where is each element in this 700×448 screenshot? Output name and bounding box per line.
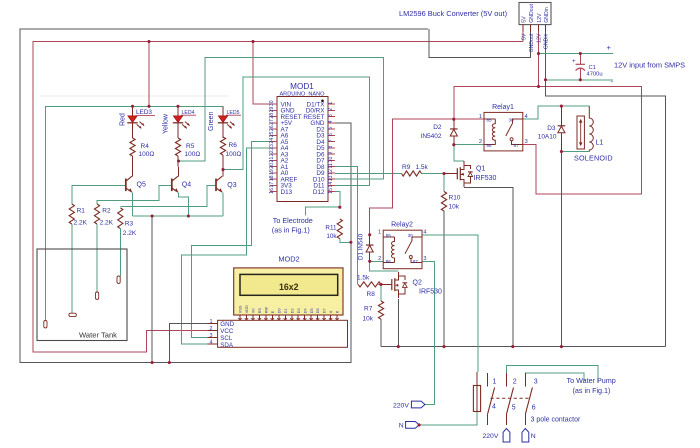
svg-text:30: 30 — [408, 233, 414, 238]
resistor R5 — [175, 138, 180, 177]
svg-text:Q3: Q3 — [227, 182, 236, 189]
wire 12V feed to D2 node — [454, 87, 539, 120]
svg-text:N: N — [399, 423, 404, 430]
label ARDUINO_NANO — [279, 91, 325, 97]
wire Q5 base to R1 — [72, 186, 126, 205]
diode D3 — [558, 106, 566, 151]
svg-text:R10: R10 — [449, 195, 461, 202]
svg-text:2: 2 — [378, 256, 381, 262]
svg-text:D5: D5 — [310, 308, 314, 313]
svg-text:D2: D2 — [433, 124, 442, 131]
svg-text:D1: D1 — [284, 308, 288, 313]
label LED4 — [181, 110, 196, 116]
wire relay2 pin2 to Q2 drain — [370, 261, 399, 271]
label Q5 — [137, 181, 146, 188]
svg-text:4700u: 4700u — [587, 72, 603, 78]
fuse — [473, 372, 480, 412]
MOD1 pin numbers — [269, 100, 334, 194]
svg-text:25: 25 — [269, 132, 275, 138]
svg-text:1: 1 — [328, 102, 334, 105]
wire VIN feed from +5V rail — [253, 42, 270, 105]
wire node to electrode probe (open end) — [306, 207, 340, 215]
electrode E3 probe tip — [96, 292, 99, 299]
svg-text:10k: 10k — [326, 233, 337, 240]
svg-text:100Ω: 100Ω — [185, 151, 201, 158]
Relay1 terminal names — [487, 117, 520, 147]
wire emitter bus to ground — [151, 216, 153, 363]
svg-text:IRF530: IRF530 — [419, 289, 442, 296]
svg-text:15: 15 — [328, 188, 334, 194]
svg-text:3: 3 — [534, 379, 538, 386]
svg-text:4: 4 — [210, 340, 213, 346]
svg-text:L1: L1 — [596, 140, 604, 147]
LED3 (red) — [127, 106, 144, 138]
svg-text:14: 14 — [328, 182, 334, 188]
svg-text:GNDin: GNDin — [544, 33, 550, 49]
svg-text:VSS: VSS — [239, 305, 243, 313]
svg-text:R6: R6 — [229, 142, 238, 149]
svg-text:2.2K: 2.2K — [123, 230, 137, 237]
svg-text:2: 2 — [513, 379, 517, 386]
svg-text:3: 3 — [210, 333, 213, 339]
transistor Q2 IRF530 — [379, 272, 408, 298]
wire R10 top node — [443, 174, 445, 192]
svg-text:IRF530: IRF530 — [474, 175, 497, 182]
svg-text:220V: 220V — [483, 433, 499, 440]
svg-text:18: 18 — [269, 175, 275, 181]
svg-text:5V: 5V — [522, 16, 528, 23]
svg-text:D3: D3 — [547, 125, 556, 132]
svg-text:87: 87 — [514, 143, 520, 148]
wire Q2 source to ground bus — [397, 299, 399, 347]
label To Water Pump — [567, 376, 616, 395]
3 pole contactor switch — [488, 373, 533, 425]
svg-text:10: 10 — [328, 157, 334, 163]
wire ground bus frame (GND net, top/left/bottom) — [20, 29, 428, 363]
label R10 10k — [449, 195, 461, 211]
svg-text:K: K — [336, 310, 340, 313]
resistor R4 — [130, 138, 135, 177]
label R3 2.2K — [123, 221, 137, 237]
svg-text:GNDout: GNDout — [529, 4, 535, 23]
svg-text:SDA: SDA — [220, 342, 234, 349]
wire Q4 collector to Arduino D10 — [179, 58, 384, 180]
svg-text:30: 30 — [269, 100, 275, 106]
electrode E1 probe tip — [44, 321, 47, 328]
wire Arduino D12 to R11 node — [335, 192, 340, 208]
diode D1 — [366, 235, 374, 261]
resistor R3 — [118, 208, 123, 229]
wire ground bus right section — [381, 346, 666, 348]
label R6 100ohm — [226, 142, 242, 158]
svg-text:10k: 10k — [363, 316, 374, 323]
transistor Q3 — [216, 176, 222, 192]
label Q1 IRF530 — [474, 166, 497, 183]
relay Relay2 — [383, 230, 422, 269]
svg-text:2: 2 — [479, 139, 482, 145]
Relay2 terminal names — [386, 233, 419, 264]
svg-text:16: 16 — [269, 188, 275, 194]
wire Q5 emitter drop — [132, 193, 134, 217]
svg-text:MOD2: MOD2 — [278, 255, 299, 264]
svg-text:R4: R4 — [141, 143, 150, 150]
svg-text:Yellow: Yellow — [163, 113, 170, 134]
svg-text:100Ω: 100Ω — [139, 151, 155, 158]
svg-text:19: 19 — [269, 169, 275, 175]
svg-text:Q2: Q2 — [413, 280, 422, 287]
label SOLENOID — [574, 154, 613, 163]
diode D2 — [450, 119, 458, 145]
label Relay1 — [492, 104, 514, 111]
svg-text:RW: RW — [264, 307, 268, 314]
svg-text:Relay1: Relay1 — [492, 104, 514, 111]
svg-text:3: 3 — [423, 256, 426, 262]
svg-text:5V: 5V — [521, 33, 527, 40]
svg-text:8: 8 — [328, 145, 334, 148]
label R9 1.5k — [402, 164, 429, 171]
Relay2 pin numbers — [378, 230, 426, 262]
svg-text:4: 4 — [492, 404, 496, 411]
svg-text:2.2K: 2.2K — [74, 220, 88, 227]
svg-text:12V: 12V — [537, 13, 543, 23]
wire contactor pole2 to water pump — [507, 366, 598, 384]
label R1 2.2K — [74, 208, 88, 227]
label Q3 — [227, 182, 236, 189]
svg-text:Red: Red — [120, 113, 127, 126]
svg-text:86: 86 — [487, 143, 493, 148]
wire emitter bus (Q5/Q4/Q3 emitters) — [133, 215, 224, 217]
svg-text:6: 6 — [532, 405, 536, 412]
Relay1 pin numbers — [479, 114, 528, 145]
resistor R8 — [358, 282, 381, 287]
svg-text:Green: Green — [208, 111, 215, 131]
svg-text:10k: 10k — [449, 204, 460, 211]
wire Q4 emitter drop with jog — [179, 193, 189, 217]
svg-text:5: 5 — [512, 405, 516, 412]
wire Q4 base to R2 — [97, 186, 171, 205]
wire solenoid bottom to D3 — [561, 151, 589, 153]
svg-text:RS: RS — [258, 307, 262, 313]
wire Arduino A5 to SCL — [192, 142, 271, 338]
label Yellow — [163, 113, 170, 134]
wire R10 bottom to ground bus — [443, 211, 445, 347]
svg-text:Q4: Q4 — [182, 181, 191, 188]
water tank — [37, 249, 127, 341]
svg-text:22: 22 — [269, 150, 275, 156]
resistor R11 — [337, 219, 342, 239]
wire contactor pole3 to water pump — [525, 373, 584, 381]
svg-text:N: N — [531, 433, 536, 440]
svg-text:1.5k: 1.5k — [357, 274, 370, 281]
svg-text:4: 4 — [525, 114, 528, 120]
wire R11 bottom to ground line — [340, 239, 351, 243]
svg-text:5: 5 — [328, 127, 334, 130]
resistor R1 — [69, 204, 74, 224]
220V output flag — [483, 429, 510, 443]
svg-text:17: 17 — [269, 182, 275, 188]
220V input flag — [393, 401, 425, 409]
transistor Q1 IRF530 — [444, 161, 473, 187]
svg-text:2.2K: 2.2K — [100, 220, 114, 227]
svg-text:26: 26 — [269, 125, 275, 131]
wire R7 gate node — [380, 284, 382, 301]
wire 12V to relay1 pin3 — [523, 87, 642, 195]
label MOD1 — [290, 82, 314, 91]
I2C backpack pins GND VCC SCL SDA — [208, 319, 235, 349]
svg-text:3: 3 — [525, 139, 528, 145]
svg-text:12V input from SMPS: 12V input from SMPS — [614, 61, 685, 70]
label 12V input from SMPS — [614, 61, 685, 70]
svg-text:1: 1 — [493, 379, 497, 386]
svg-text:2: 2 — [328, 108, 334, 111]
label LED5 — [226, 110, 241, 116]
svg-text:To Electrode: To Electrode — [273, 216, 313, 225]
svg-text:3: 3 — [328, 114, 334, 117]
svg-text:R7: R7 — [364, 306, 373, 313]
wire LCD backpack GND to ground bus — [169, 324, 207, 363]
svg-text:11: 11 — [328, 163, 334, 168]
svg-text:10A10: 10A10 — [538, 134, 557, 141]
resistor R9 — [402, 171, 422, 176]
svg-text:A: A — [329, 310, 333, 313]
LCD pin stubs with no-connect marks — [238, 305, 339, 322]
wire 12V net: relay1 coil+ / D2 / relay2 coil+ — [370, 119, 484, 235]
transistor Q4 — [172, 176, 178, 192]
N output flag — [522, 429, 536, 443]
svg-text:To Water Pump: To Water Pump — [567, 376, 616, 385]
svg-text:21: 21 — [269, 157, 275, 163]
label C1 4700u — [587, 65, 603, 78]
svg-text:12: 12 — [328, 169, 334, 175]
svg-text:1: 1 — [378, 230, 381, 236]
wire relay1 pin2 to Q1 drain — [454, 144, 484, 146]
svg-text:23: 23 — [269, 144, 275, 150]
LCD display MOD2 16x2 — [234, 268, 343, 315]
label R2 2.2K — [100, 208, 114, 227]
wire SMPS + terminal — [539, 53, 614, 55]
label Red — [120, 113, 127, 126]
N input flag — [399, 422, 419, 430]
svg-text:GNDout: GNDout — [529, 33, 535, 52]
MOD1 pin stubs — [270, 104, 335, 192]
contactor pole numbers — [492, 379, 538, 412]
svg-text:ARDUINO_NANO: ARDUINO_NANO — [279, 91, 325, 97]
wire Arduino D8 down to R8 — [335, 167, 357, 285]
svg-text:D12: D12 — [313, 189, 325, 196]
wire relay1 pin4 to solenoid — [523, 106, 590, 119]
resistor R10 — [441, 192, 446, 212]
label L1 — [596, 140, 604, 147]
wire buck 5V output to +5V rail — [522, 31, 524, 41]
wire +5V net frame (top rail, left side, LCD VCC feed) — [33, 42, 523, 353]
svg-text:R2: R2 — [102, 208, 111, 215]
label + terminal — [607, 43, 612, 52]
svg-text:+: + — [607, 43, 612, 52]
solenoid L1 — [577, 106, 593, 151]
label Q4 — [182, 181, 191, 188]
svg-text:(as in Fig.1): (as in Fig.1) — [573, 386, 611, 395]
wire SMPS - terminal — [546, 79, 614, 81]
svg-text:LED3: LED3 — [136, 109, 152, 116]
svg-text:1: 1 — [210, 319, 213, 325]
resistor R7 — [378, 301, 383, 319]
relay Relay1 — [484, 112, 523, 150]
svg-text:D2: D2 — [290, 308, 294, 313]
svg-text:R5: R5 — [186, 143, 195, 150]
svg-text:Q5: Q5 — [137, 181, 146, 188]
transistor Q5 — [126, 176, 132, 192]
svg-text:C1: C1 — [589, 65, 596, 71]
faint guide line — [39, 95, 229, 97]
wire Q3 collector to Arduino D11 — [223, 77, 369, 185]
svg-text:1.5k: 1.5k — [416, 164, 429, 171]
svg-text:GND: GND — [220, 321, 234, 328]
svg-text:D0: D0 — [277, 308, 281, 313]
buck converter pins 5V GNDout 12V GNDin — [521, 4, 550, 53]
wire R9 to Q1 gate node — [422, 173, 445, 175]
svg-text:R1: R1 — [77, 208, 86, 215]
wire R7 bottom to ground bus — [380, 319, 382, 346]
svg-text:Relay2: Relay2 — [391, 222, 413, 229]
svg-text:20: 20 — [269, 163, 275, 169]
svg-text:LM2596 Buck Converter (5V out): LM2596 Buck Converter (5V out) — [399, 9, 507, 18]
svg-text:100Ω: 100Ω — [226, 151, 242, 158]
svg-text:4: 4 — [423, 230, 426, 236]
svg-text:6: 6 — [328, 133, 334, 136]
svg-text:D6: D6 — [316, 308, 320, 313]
wire Q3 base to R3 — [120, 186, 215, 207]
svg-text:85: 85 — [487, 117, 493, 122]
LED5 (green) — [218, 106, 235, 138]
label LED3 — [136, 109, 156, 116]
svg-text:12V: 12V — [537, 33, 543, 43]
svg-text:30: 30 — [509, 117, 515, 122]
svg-text:D4: D4 — [303, 308, 307, 313]
svg-text:GNDin: GNDin — [544, 7, 550, 23]
wire LED supply rail (+5V to LED anodes and electrode E1) — [45, 106, 223, 321]
wire buck GNDin to ground bus — [546, 31, 666, 346]
svg-text:3 pole contactor: 3 pole contactor — [531, 417, 581, 424]
label LM2596 Buck Converter (5V out) — [399, 9, 507, 18]
svg-text:R8: R8 — [367, 291, 376, 298]
LED4 (yellow) — [173, 106, 190, 138]
svg-text:D1 IN540: D1 IN540 — [358, 233, 365, 260]
label MOD2 — [278, 255, 299, 264]
svg-text:220V: 220V — [393, 402, 409, 409]
electrode E2 probe tip — [69, 313, 76, 316]
svg-text:IN5402: IN5402 — [421, 133, 442, 140]
label Relay2 — [391, 222, 413, 229]
label R8 1.5k — [357, 274, 375, 298]
svg-text:9: 9 — [328, 152, 334, 155]
wire fuse to N flag — [419, 412, 477, 425]
svg-text:85: 85 — [386, 233, 392, 238]
svg-text:R9: R9 — [402, 164, 411, 171]
label - terminal — [611, 77, 614, 86]
svg-text:(as in Fig.1): (as in Fig.1) — [272, 225, 310, 234]
svg-text:+: + — [572, 59, 576, 65]
wire +5V drop to LED rail — [148, 42, 150, 107]
svg-text:Q1: Q1 — [476, 166, 485, 173]
svg-text:D7: D7 — [323, 308, 327, 313]
electrode E4 probe tip — [117, 276, 120, 283]
svg-text:1: 1 — [479, 114, 482, 120]
LM2596 buck converter module box — [519, 3, 551, 25]
svg-text:R3: R3 — [125, 221, 134, 228]
wire relay2 pin4 to fuse — [421, 235, 478, 372]
wire buck GNDout to ground frame — [429, 29, 530, 58]
svg-text:7: 7 — [328, 139, 334, 142]
I2C backpack module box — [218, 320, 348, 347]
svg-text:Water Tank: Water Tank — [79, 331, 117, 340]
svg-text:27: 27 — [269, 119, 275, 125]
svg-text:VDD: VDD — [245, 305, 249, 313]
svg-text:4: 4 — [328, 120, 334, 123]
IC MOD1 Arduino Nano box — [277, 97, 328, 202]
svg-text:V0: V0 — [252, 309, 256, 314]
label R11 10k — [325, 225, 337, 241]
MOD1 pin names — [281, 101, 326, 196]
label D3 10A10 — [538, 125, 557, 141]
svg-text:D13: D13 — [281, 189, 293, 196]
label D1 IN540 — [358, 233, 365, 260]
capacitor C1 — [572, 59, 585, 71]
svg-text:29: 29 — [269, 106, 275, 112]
label To Electrode — [272, 216, 313, 235]
wire D3/solenoid node to ground bus — [560, 152, 562, 347]
svg-text:28: 28 — [269, 113, 275, 119]
label Q2 IRF530 — [413, 280, 443, 296]
label R5 100ohm — [185, 143, 201, 158]
svg-text:13: 13 — [328, 175, 334, 181]
wire Q1 drain riser — [454, 145, 464, 162]
svg-text:24: 24 — [269, 138, 275, 144]
svg-text:16x2: 16x2 — [279, 282, 299, 292]
svg-text:R11: R11 — [325, 225, 337, 232]
label R7 10k — [363, 306, 374, 323]
svg-text:2: 2 — [210, 326, 213, 332]
wire Arduino D9 to R9 — [335, 173, 402, 175]
wire C1 leads — [579, 54, 581, 80]
wire R3 to electrode E4 — [119, 229, 121, 277]
svg-text:D3: D3 — [297, 308, 301, 313]
label R4 100ohm — [139, 143, 155, 158]
label D2 IN5402 — [421, 124, 442, 140]
label 3 pole contactor — [531, 417, 581, 424]
resistor R2 — [94, 204, 99, 224]
svg-text:86: 86 — [386, 259, 392, 264]
wire buck 12V input drop — [538, 31, 540, 86]
wire Arduino A4 to SDA — [182, 148, 271, 344]
label Green — [208, 111, 215, 131]
wire R1 to electrode E2 — [71, 224, 73, 313]
wire Q1 source to ground bus — [464, 187, 513, 346]
wire Q3 emitter drop — [222, 193, 224, 217]
svg-text:SOLENOID: SOLENOID — [574, 154, 613, 163]
wire R2 to electrode E3 — [96, 224, 98, 293]
svg-text:MOD1: MOD1 — [290, 82, 314, 91]
svg-text:87: 87 — [413, 259, 419, 264]
wire relay2 pin3 to 220V flag — [421, 261, 434, 404]
resistor R6 — [220, 137, 225, 177]
